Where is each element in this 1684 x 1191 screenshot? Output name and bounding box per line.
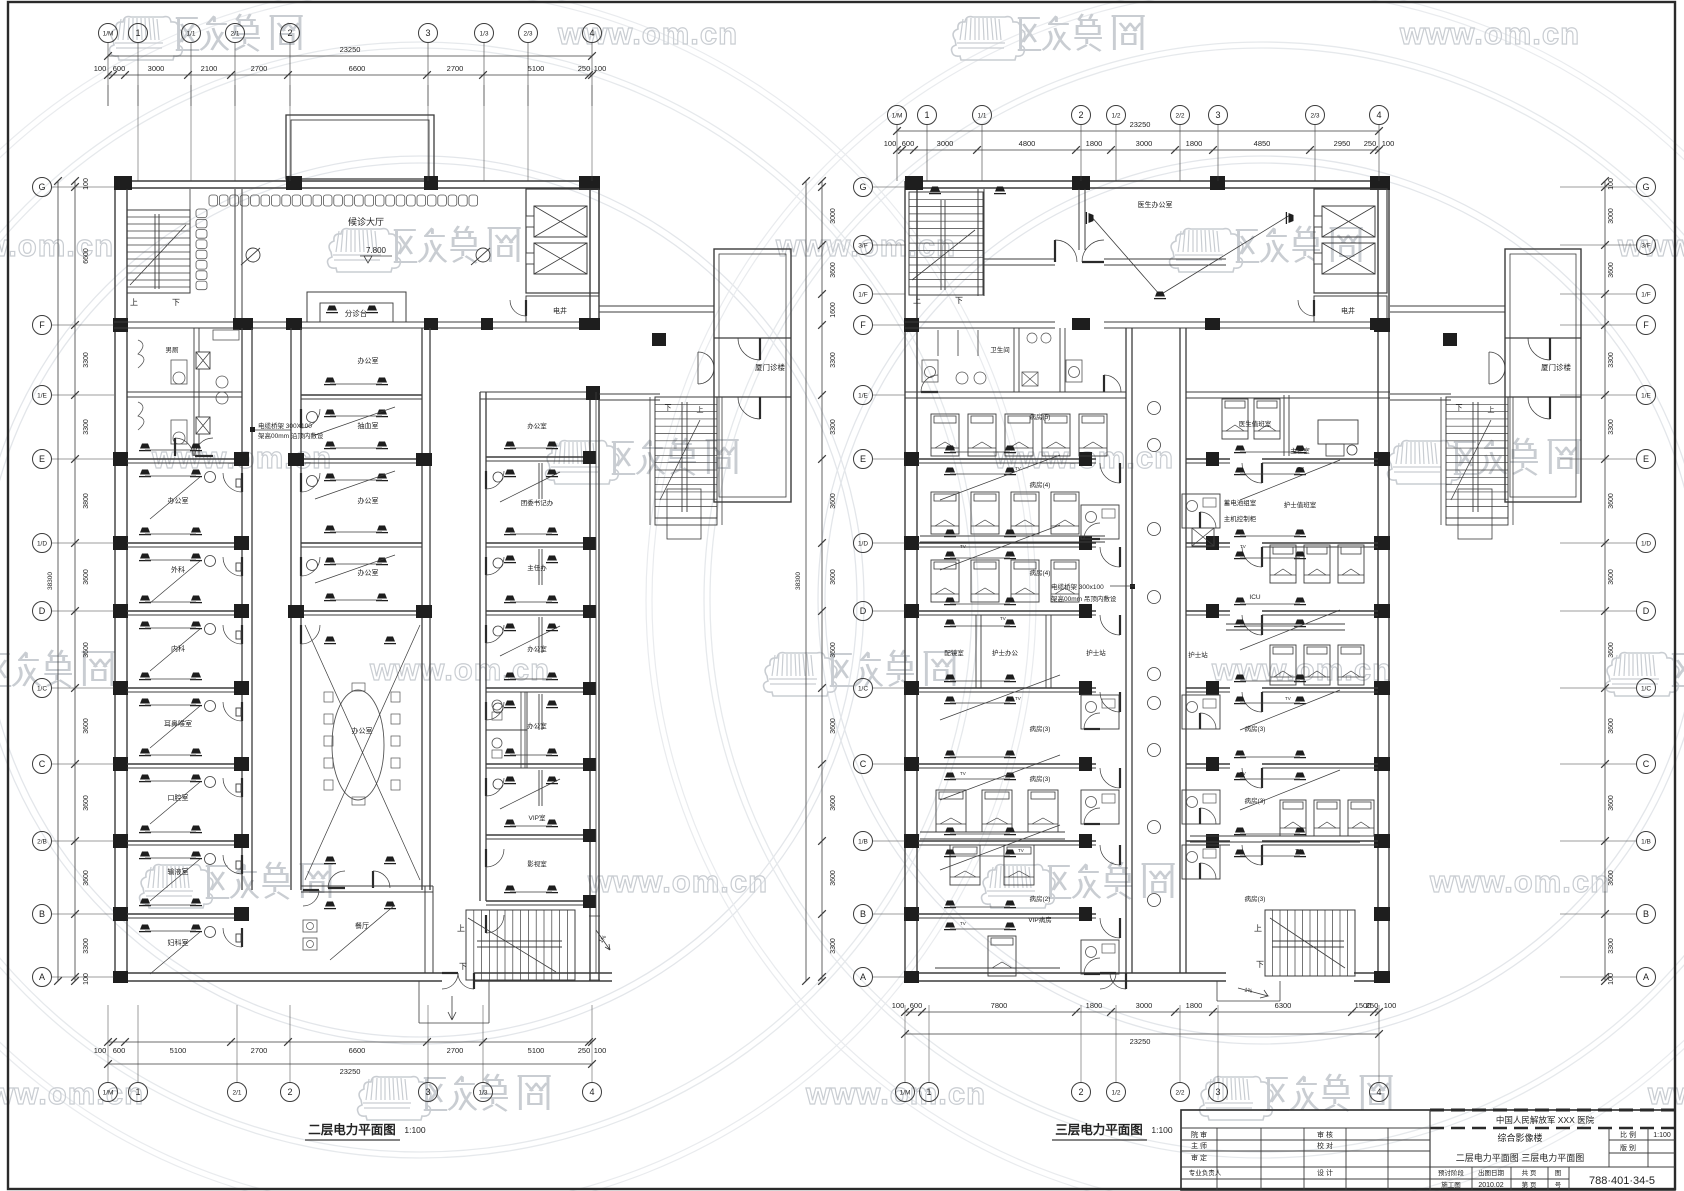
right wing dividers (486, 456, 590, 458)
svg-text:办公室: 办公室 (168, 496, 189, 505)
svg-text:3000: 3000 (1136, 1001, 1153, 1010)
right plan left exterior wall (904, 181, 906, 977)
svg-text:上: 上 (697, 405, 704, 414)
right wing ward rows (1186, 458, 1230, 460)
attachment room block (714, 249, 791, 502)
svg-text:38300: 38300 (795, 572, 802, 590)
svg-text:专业负责人: 专业负责人 (1189, 1168, 1222, 1177)
svg-text:3800: 3800 (83, 493, 90, 509)
svg-text:病房(4): 病房(4) (1030, 480, 1051, 489)
svg-text:1: 1 (926, 1087, 931, 1097)
left wall columns (113, 318, 128, 332)
right plan left dim chain (821, 181, 823, 981)
svg-text:办公室: 办公室 (358, 568, 379, 577)
svg-text:100: 100 (1608, 178, 1615, 190)
svg-text:护士站: 护士站 (1188, 650, 1208, 659)
svg-text:团委书记办: 团委书记办 (521, 498, 554, 507)
right plan right bubbles (1637, 178, 1656, 197)
svg-text:3300: 3300 (1608, 419, 1615, 435)
svg-text:医生值班室: 医生值班室 (1239, 419, 1272, 428)
right plan top bubbles (888, 106, 907, 125)
svg-text:E: E (860, 454, 866, 464)
svg-text:G: G (38, 182, 45, 192)
right wing rail (1190, 835, 1360, 837)
svg-text:病房(3): 病房(3) (1245, 894, 1266, 903)
svg-text:3300: 3300 (83, 419, 90, 435)
svg-text:3600: 3600 (830, 262, 837, 278)
svg-text:4: 4 (589, 28, 594, 38)
svg-text:TV: TV (960, 921, 966, 926)
right plan bottom stair (1265, 910, 1355, 976)
svg-text:A: A (860, 972, 866, 982)
dining room (301, 885, 433, 887)
svg-text:100: 100 (884, 139, 897, 148)
svg-text:3300: 3300 (83, 352, 90, 368)
svg-text:3600: 3600 (830, 569, 837, 585)
svg-text:D: D (860, 606, 867, 616)
right plan bottom bubbles (896, 1083, 915, 1102)
svg-text:2/B: 2/B (37, 838, 47, 845)
right F corridor wall (905, 321, 1055, 323)
right wing top wall (480, 391, 599, 393)
svg-text:A: A (39, 972, 45, 982)
svg-text:3600: 3600 (830, 870, 837, 886)
attachment doors (759, 338, 761, 360)
svg-text:3600: 3600 (83, 795, 90, 811)
right plan mid door bottom (1100, 972, 1116, 974)
svg-text:院 审: 院 审 (1191, 1130, 1207, 1139)
svg-text:23250: 23250 (340, 45, 361, 54)
svg-text:1/E: 1/E (858, 392, 868, 399)
svg-text:4850: 4850 (1254, 139, 1271, 148)
svg-text:2950: 2950 (1334, 139, 1351, 148)
svg-text:三层电力平面图: 三层电力平面图 (1055, 1122, 1143, 1137)
svg-text:3600: 3600 (830, 795, 837, 811)
svg-text:分诊台: 分诊台 (345, 308, 368, 318)
svg-text:厦门诊楼: 厦门诊楼 (1541, 362, 1571, 372)
title block bottom row (1430, 1166, 1675, 1168)
beds ward4a (931, 492, 959, 534)
svg-text:100: 100 (594, 1046, 607, 1055)
svg-text:中国人民解放军 XXX 医院: 中国人民解放军 XXX 医院 (1496, 1115, 1595, 1125)
svg-text:办公室: 办公室 (352, 726, 373, 735)
washroom door arcs (195, 455, 213, 457)
svg-text:1/D: 1/D (858, 540, 868, 547)
beds right wing top (1222, 399, 1248, 439)
stair room wall (977, 189, 979, 296)
svg-text:TV: TV (1295, 848, 1301, 853)
right wall columns (1374, 318, 1390, 332)
svg-text:电缆桥架 300x100: 电缆桥架 300x100 (1051, 582, 1104, 591)
title block left table (1216, 1128, 1218, 1190)
svg-text:2700: 2700 (251, 1046, 268, 1055)
right top wall columns (905, 176, 923, 190)
svg-text:4: 4 (589, 1087, 594, 1097)
svg-text:1/M: 1/M (103, 1089, 114, 1096)
left plan top extension lines (107, 85, 109, 106)
svg-text:3/F: 3/F (858, 242, 867, 249)
svg-text:600: 600 (113, 64, 126, 73)
F wall columns (233, 318, 253, 330)
svg-text:38300: 38300 (47, 572, 54, 590)
svg-text:3000: 3000 (830, 208, 837, 224)
svg-text:100: 100 (1608, 973, 1615, 985)
svg-text:上: 上 (457, 924, 465, 933)
svg-text:TV: TV (1240, 544, 1246, 549)
right wing outer face line (595, 392, 597, 973)
svg-text:上: 上 (1254, 924, 1262, 933)
right plan bottom exterior wall (905, 972, 1100, 974)
svg-text:D: D (39, 606, 46, 616)
svg-text:主 师: 主 师 (1191, 1141, 1207, 1150)
svg-text:1: 1 (135, 28, 140, 38)
svg-text:250: 250 (578, 64, 591, 73)
attachment exterior stair (655, 397, 717, 518)
svg-text:ICU: ICU (1249, 594, 1261, 601)
svg-text:上: 上 (1488, 405, 1495, 414)
svg-text:2/3: 2/3 (1310, 112, 1319, 119)
svg-text:3300: 3300 (1608, 938, 1615, 954)
left wing room dividers (127, 458, 242, 460)
svg-text:3600: 3600 (830, 642, 837, 658)
svg-text:100: 100 (94, 1046, 107, 1055)
svg-text:2/1: 2/1 (232, 1089, 241, 1096)
svg-text:4: 4 (1376, 1087, 1381, 1097)
right attachment corridor walls (1390, 305, 1505, 307)
svg-text:病房(2): 病房(2) (1030, 894, 1051, 903)
beds right wing mid (1270, 545, 1296, 583)
svg-text:下: 下 (1256, 960, 1264, 969)
svg-text:B: B (860, 909, 866, 919)
svg-text:下: 下 (459, 962, 467, 971)
reception desk (307, 292, 406, 322)
svg-text:3600: 3600 (830, 718, 837, 734)
right plan left bubbles (854, 178, 873, 197)
svg-text:病房(3): 病房(3) (1245, 724, 1266, 733)
svg-text:1: 1 (135, 1087, 140, 1097)
svg-text:1/F: 1/F (858, 291, 867, 298)
svg-text:办公室: 办公室 (358, 356, 379, 365)
svg-text:G: G (859, 182, 866, 192)
bottom entrance door (442, 972, 458, 974)
svg-text:3600: 3600 (83, 718, 90, 734)
doctor office partition (1078, 189, 1080, 250)
svg-text:3600: 3600 (1608, 262, 1615, 278)
svg-text:5100: 5100 (170, 1046, 187, 1055)
svg-text:1/3: 1/3 (478, 1089, 487, 1096)
svg-text:B: B (39, 909, 45, 919)
svg-text:架高00mm 吊顶内敷设: 架高00mm 吊顶内敷设 (1051, 594, 1117, 603)
svg-text:护士值班室: 护士值班室 (1284, 500, 1317, 509)
left wing corridor wall (241, 328, 243, 890)
svg-text:3: 3 (425, 28, 430, 38)
washroom stalls and fixtures (138, 340, 144, 368)
svg-text:TV: TV (960, 544, 966, 549)
svg-text:TV: TV (1298, 466, 1304, 471)
svg-text:2700: 2700 (447, 1046, 464, 1055)
svg-text:办公室: 办公室 (527, 644, 547, 653)
fans right plan wards (944, 446, 956, 453)
right plan top exterior wall (905, 180, 1390, 182)
svg-text:G: G (1642, 182, 1649, 192)
svg-text:厦门诊楼: 厦门诊楼 (755, 362, 785, 372)
svg-text:设 计: 设 计 (1317, 1168, 1333, 1177)
svg-text:2/2: 2/2 (1175, 112, 1184, 119)
svg-text:2/1: 2/1 (230, 30, 239, 37)
svg-text:600: 600 (113, 1046, 126, 1055)
svg-text:3000: 3000 (1136, 139, 1153, 148)
right wing small washrooms (486, 692, 527, 730)
svg-text:二层电力平面图: 二层电力平面图 (308, 1122, 396, 1137)
svg-text:综合影像楼: 综合影像楼 (1497, 1132, 1542, 1143)
svg-text:1/M: 1/M (900, 1089, 911, 1096)
svg-text:1:100: 1:100 (404, 1125, 426, 1135)
svg-text:3300: 3300 (1608, 352, 1615, 368)
svg-text:1/E: 1/E (37, 392, 47, 399)
svg-text:上: 上 (913, 296, 921, 305)
svg-text:护士办公: 护士办公 (992, 648, 1019, 657)
svg-text:788·401·34-5: 788·401·34-5 (1589, 1175, 1655, 1187)
svg-text:3: 3 (1215, 1087, 1220, 1097)
main bottom stair (466, 910, 575, 980)
svg-text:3: 3 (1215, 110, 1220, 120)
svg-text:E: E (1643, 454, 1649, 464)
beds ward5 (931, 414, 959, 456)
right plan top-left stair (909, 192, 983, 295)
svg-text:1/1: 1/1 (186, 30, 195, 37)
svg-text:卫生间: 卫生间 (990, 345, 1010, 354)
mid wing right wall (421, 328, 423, 890)
right left wall columns (904, 318, 919, 332)
bed vip (988, 936, 1016, 976)
mid wing dividers (301, 394, 422, 396)
svg-text:VIP室: VIP室 (529, 813, 546, 822)
svg-text:100: 100 (1382, 139, 1395, 148)
watermark big circles (0, 163, 857, 1037)
svg-text:4800: 4800 (1019, 139, 1036, 148)
svg-text:办公室: 办公室 (527, 421, 547, 430)
svg-text:F: F (1643, 320, 1649, 330)
entrance porch (418, 981, 420, 1023)
ward corridor walls vertical (1125, 328, 1127, 973)
svg-text:3600: 3600 (83, 870, 90, 886)
left plan bottom bubbles (99, 1083, 118, 1102)
svg-text:妇科室: 妇科室 (168, 938, 189, 947)
svg-text:1/C: 1/C (1641, 685, 1651, 692)
svg-text:23250: 23250 (340, 1067, 361, 1076)
svg-text:上: 上 (130, 298, 138, 307)
svg-text:电缆桥架 300X100: 电缆桥架 300X100 (258, 421, 312, 430)
svg-text:E: E (39, 454, 45, 464)
svg-text:TV: TV (1015, 696, 1021, 701)
left plan top exterior wall (114, 180, 600, 182)
svg-text:3300: 3300 (83, 938, 90, 954)
svg-text:审 定: 审 定 (1191, 1153, 1207, 1162)
svg-text:共 页: 共 页 (1522, 1168, 1537, 1177)
svg-text:C: C (860, 759, 867, 769)
svg-text:7800: 7800 (991, 1001, 1008, 1010)
right corridor wall (479, 392, 481, 901)
svg-text:病房(3): 病房(3) (1030, 724, 1051, 733)
svg-text:23250: 23250 (1130, 1037, 1151, 1046)
svg-text:2: 2 (1078, 110, 1083, 120)
svg-text:电井: 电井 (1341, 306, 1355, 315)
svg-text:C: C (39, 759, 46, 769)
svg-text:1/C: 1/C (858, 685, 868, 692)
svg-text:外科: 外科 (171, 565, 185, 574)
svg-text:2/3: 2/3 (523, 30, 532, 37)
svg-text:F: F (860, 320, 866, 330)
cable tray notes (250, 427, 255, 432)
svg-text:3: 3 (425, 1087, 430, 1097)
svg-text:100: 100 (594, 64, 607, 73)
svg-text:3000: 3000 (148, 64, 165, 73)
svg-text:1/D: 1/D (37, 540, 47, 547)
svg-text:男厕: 男厕 (166, 346, 180, 354)
svg-text:3600: 3600 (830, 493, 837, 509)
svg-text:TV: TV (1285, 696, 1291, 701)
svg-text:3600: 3600 (1608, 642, 1615, 658)
right attachment room block (1505, 249, 1581, 502)
svg-text:号: 号 (1555, 1181, 1562, 1189)
beds ward4b (931, 560, 959, 602)
svg-text:3000: 3000 (937, 139, 954, 148)
svg-text:二层电力平面图 三层电力平面图: 二层电力平面图 三层电力平面图 (1456, 1152, 1585, 1163)
small bathrooms along corridor left wing (1081, 505, 1119, 539)
svg-text:3600: 3600 (1608, 493, 1615, 509)
left wing ward rows (918, 458, 1096, 460)
left plan right exterior wall upper (589, 181, 591, 322)
svg-text:250: 250 (578, 1046, 591, 1055)
svg-text:2010.02: 2010.02 (1478, 1182, 1503, 1189)
svg-text:抽血室: 抽血室 (358, 421, 379, 430)
svg-text:2: 2 (287, 28, 292, 38)
svg-text:3/F: 3/F (1641, 242, 1650, 249)
svg-text:1:100: 1:100 (1653, 1132, 1671, 1139)
svg-text:1800: 1800 (1186, 139, 1203, 148)
svg-text:1600: 1600 (830, 302, 837, 318)
svg-text:TV: TV (960, 771, 966, 776)
svg-text:4: 4 (1376, 110, 1381, 120)
svg-text:7.800: 7.800 (366, 246, 387, 255)
svg-text:TV: TV (1018, 848, 1024, 853)
svg-text:1/B: 1/B (858, 838, 868, 845)
svg-text:1/B: 1/B (1641, 838, 1651, 845)
svg-text:100: 100 (83, 973, 90, 985)
svg-text:1/E: 1/E (1641, 392, 1651, 399)
right plan bottom dims (905, 1011, 1379, 1013)
svg-text:VIP病房: VIP病房 (1028, 915, 1051, 924)
svg-text:主任办: 主任办 (527, 563, 547, 572)
svg-text:2700: 2700 (251, 64, 268, 73)
top corridor wall (984, 258, 1055, 260)
svg-text:1:100: 1:100 (1151, 1125, 1173, 1135)
svg-text:病房(3): 病房(3) (1030, 774, 1051, 783)
svg-text:医生办公室: 医生办公室 (1138, 200, 1173, 209)
svg-text:施工图: 施工图 (1441, 1180, 1461, 1189)
left wing fans and wiring (139, 470, 151, 477)
right plan right dim chain (1604, 181, 1606, 981)
right elevator block (1314, 189, 1387, 293)
svg-text:TV: TV (1240, 771, 1246, 776)
left plan (113, 115, 791, 1023)
left plan top grid bubbles (99, 24, 118, 43)
svg-text:1800: 1800 (1186, 1001, 1203, 1010)
svg-text:3300: 3300 (830, 352, 837, 368)
svg-text:2100: 2100 (201, 64, 218, 73)
svg-text:第 页: 第 页 (1522, 1180, 1537, 1189)
svg-text:下: 下 (955, 296, 963, 305)
lobby waiting seats column (196, 209, 207, 218)
svg-text:3600: 3600 (1608, 569, 1615, 585)
mid wing left wall (290, 328, 292, 890)
svg-text:1/2: 1/2 (1111, 1089, 1120, 1096)
svg-text:1800: 1800 (1086, 1001, 1103, 1010)
svg-text:影视室: 影视室 (527, 859, 547, 868)
meeting room doors (328, 887, 345, 889)
svg-text:6600: 6600 (349, 1046, 366, 1055)
left plan left dim chain (74, 181, 76, 981)
svg-text:1/1: 1/1 (977, 112, 986, 119)
extra wiring left plan (315, 407, 395, 435)
left attachment corridor walls (599, 305, 714, 307)
svg-text:3600: 3600 (83, 569, 90, 585)
svg-text:2: 2 (287, 1087, 292, 1097)
beds ward3 left (936, 790, 966, 832)
svg-text:600: 600 (902, 139, 915, 148)
svg-text:1/F: 1/F (1641, 291, 1650, 298)
svg-text:2/2: 2/2 (1175, 1089, 1184, 1096)
svg-text:下: 下 (1456, 404, 1463, 412)
lobby stair top-left (127, 210, 190, 293)
svg-text:办公室: 办公室 (358, 496, 379, 505)
title block (1181, 1110, 1675, 1190)
svg-text:6600: 6600 (83, 248, 90, 264)
svg-text:1800: 1800 (1086, 139, 1103, 148)
svg-text:D: D (1643, 606, 1650, 616)
svg-text:TV: TV (1000, 616, 1006, 621)
svg-text:3600: 3600 (1608, 795, 1615, 811)
svg-text:6600: 6600 (349, 64, 366, 73)
electrical shaft (526, 296, 599, 322)
svg-text:版 别: 版 别 (1620, 1143, 1636, 1152)
svg-text:图: 图 (1555, 1169, 1562, 1177)
svg-text:1/D: 1/D (1641, 540, 1651, 547)
svg-text:100: 100 (1384, 1001, 1397, 1010)
side ramp (589, 915, 600, 917)
left plan left bubbles (33, 178, 52, 197)
1/E wall (905, 391, 1126, 393)
lobby waiting seats row (209, 195, 218, 206)
left plan right exterior wall lower (589, 392, 591, 981)
svg-text:2700: 2700 (447, 64, 464, 73)
svg-text:1/M: 1/M (103, 30, 114, 37)
svg-text:1/C: 1/C (37, 685, 47, 692)
beds ward2 left (950, 845, 980, 885)
svg-text:A: A (1643, 972, 1649, 982)
title block right cells (1608, 1128, 1610, 1167)
svg-text:B: B (1643, 909, 1649, 919)
svg-text:1: 1 (924, 110, 929, 120)
F corridor wall (114, 321, 235, 323)
svg-text:候诊大厅: 候诊大厅 (348, 216, 384, 227)
small bathrooms right wing (1182, 494, 1220, 528)
svg-text:下: 下 (665, 404, 672, 412)
top wall columns (114, 176, 132, 190)
wiring diagonals right plan (940, 455, 1060, 500)
right plan porch (1216, 981, 1218, 1001)
svg-text:下: 下 (172, 298, 180, 307)
